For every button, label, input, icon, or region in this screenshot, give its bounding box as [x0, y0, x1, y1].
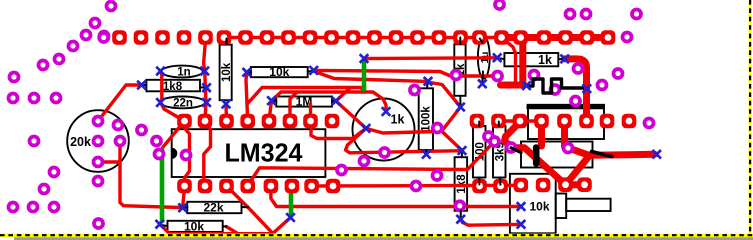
resistor 10k (horizontal) body	[251, 65, 308, 79]
pads: IC row upper	[177, 114, 339, 129]
wire: pad stub under 1M	[309, 104, 312, 121]
board edge right (dashed)	[749, 0, 752, 234]
wire: IC pad 1 to green jumper top	[163, 121, 185, 147]
wire: 1M right up to y87 rail	[336, 88, 351, 102]
trimmer 1k body	[353, 99, 415, 161]
resistor 100k body	[419, 88, 433, 150]
pads: top-right cluster (magenta)	[493, 0, 643, 20]
wire: 20k bottom stub	[98, 160, 120, 163]
resistor 1k8 (horizontal) body	[146, 80, 200, 93]
wire: pad to 1n right	[204, 40, 206, 71]
jumper wire (green, middle top)	[362, 61, 367, 92]
diode/cap box leads	[511, 148, 612, 157]
wire: IC inner trace pin1	[185, 121, 190, 186]
wire: thick vertical through 1k box	[519, 39, 526, 83]
svg-text:1k8: 1k8	[163, 81, 183, 93]
diode/cap box (right middle)	[521, 142, 593, 168]
pads: upper-left cluster (magenta)	[7, 0, 118, 104]
wire: bottom pads rail y186	[312, 184, 521, 188]
wire: pad to y92 rail	[290, 92, 297, 121]
wire: 1k vert bottom to trimmer area	[366, 107, 461, 133]
capacitor 22n body	[160, 97, 205, 110]
svg-text:1k: 1k	[391, 113, 405, 127]
wire: pad link	[499, 119, 542, 122]
board edge bottom (dashed)	[0, 234, 753, 240]
wire: IC pad3 to 22k right	[227, 186, 249, 207]
pads: right row upper	[470, 114, 637, 129]
wire: thick horizontal to zigzag node	[501, 82, 525, 89]
wire: junction to 1k8 top	[442, 131, 463, 151]
wire: 1M left down to pad	[269, 101, 272, 121]
wire: 22n left to IC pad 1	[161, 103, 185, 122]
diode/cap body (black bar)	[533, 148, 540, 164]
wire: IC inner trace pin2	[204, 121, 211, 186]
wire: IC pad to 22k left x	[183, 188, 185, 206]
pads: right-middle cluster (magenta)	[408, 31, 655, 155]
wire: 1k8 left to 20k pad	[98, 85, 141, 121]
wire: green jumper to 1k(horiz) left (y58)	[364, 56, 497, 60]
wire: stub to diode/cap pin	[538, 121, 545, 146]
svg-text:1n: 1n	[177, 67, 190, 79]
wire: 10k vertical bottom to pad	[224, 104, 228, 121]
pads: IC row lower	[177, 179, 340, 194]
resistor 1k (vertical, top middle) body	[454, 44, 467, 96]
svg-text:10k: 10k	[184, 219, 204, 233]
wire: IC pad to trimmer left	[311, 121, 366, 139]
wire: 20k wiper to 22k left	[120, 141, 180, 208]
svg-text:LM324: LM324	[225, 140, 304, 168]
wire: pad to bottom-right pad (thick diagonal)	[505, 121, 566, 185]
resistor 100 body	[473, 126, 486, 178]
wire: pad diagonal into thin vertical	[502, 38, 516, 84]
wire: pad down through box2 to x657 rail (thick)	[565, 121, 590, 155]
resistor 10k (vertical, top left) body	[220, 45, 233, 101]
pads: bottom right group	[472, 177, 592, 193]
wire: 10k(horiz) right long rail	[314, 70, 493, 76]
wire: 1M right down to trimmer 1k left	[336, 101, 366, 128]
wire: thick rail to right x	[589, 154, 655, 155]
wire: 1k8 bottom to 10k trimmer (y225 rail)	[461, 219, 518, 225]
pads: middle cluster (magenta)	[135, 124, 466, 213]
wire: rail to green jumper (y87)	[247, 88, 364, 105]
svg-text:20k: 20k	[70, 135, 91, 149]
wire: IC pad4 to magenta pads (y168 rail)	[248, 142, 494, 186]
wire: pad to 10k trimmer (y206 rail)	[271, 188, 519, 207]
pads: top rail	[112, 30, 615, 45]
svg-text:10k: 10k	[269, 65, 289, 79]
junction markers (blue X)	[137, 54, 661, 229]
pads: lower-left cluster (magenta)	[7, 166, 105, 230]
svg-text:100k: 100k	[421, 106, 433, 132]
svg-text:1k8: 1k8	[456, 174, 468, 194]
wire: 1n/1k8/22n right vertical to pad	[205, 71, 206, 121]
wire: 10k(horiz) left down to pad	[246, 72, 248, 121]
resistor 1k8 (vertical) body	[455, 157, 468, 211]
connector box (top right)	[527, 105, 605, 139]
wire: bottom-right pad up-right (thick diagonal)	[566, 156, 590, 185]
wire: 10k(bottom) right to bottom rail	[226, 227, 238, 234]
wire: top rail chain right (thick)	[502, 34, 609, 41]
wire: bottom ground rail	[160, 218, 291, 234]
capacitor 1n body	[161, 66, 203, 79]
trimmer 20k body	[67, 110, 129, 172]
wire: 10k right to 1k vertical bottom	[315, 72, 461, 108]
capacitor 1u body	[478, 37, 491, 79]
trimmer 10k (bottom right) body with shaft	[510, 174, 611, 234]
wire: 22k right to bottom rail	[248, 207, 273, 233]
jumper wire (green, bottom middle)	[289, 190, 294, 216]
resistor 10k (bottom left) body	[168, 219, 223, 233]
op-amp U1 LM324 body	[172, 129, 326, 177]
jumper wire (green, left tall)	[160, 148, 165, 223]
resistor 1M body	[276, 94, 332, 108]
wire: top rail chain (thin)	[224, 36, 502, 39]
wire: 1k(horiz) right to pad column (thick)	[565, 59, 587, 121]
svg-text:10k: 10k	[529, 200, 549, 214]
svg-text:22n: 22n	[173, 98, 193, 110]
component leads (black)	[142, 38, 565, 227]
wire: bottom-right pad pair link (thick)	[566, 181, 585, 188]
wire: trimmer left to 1k8 vertical top	[346, 128, 463, 152]
wire: 1M left rail to 1k trimmer top	[272, 92, 387, 112]
pads: 20k trimmer pins (magenta)	[28, 115, 127, 169]
wire link (black zigzag)	[527, 79, 584, 93]
wire: 1n/22n left vertical	[161, 71, 162, 103]
svg-text:10k: 10k	[221, 62, 233, 82]
resistor 22k body	[187, 201, 241, 215]
resistor 1k (horizontal, top right) body	[504, 53, 558, 67]
svg-text:22k: 22k	[203, 201, 223, 215]
resistor 3k9 body	[493, 126, 506, 178]
svg-text:1k: 1k	[538, 53, 552, 67]
